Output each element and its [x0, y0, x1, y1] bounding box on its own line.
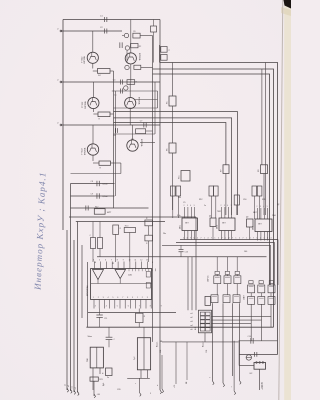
- page right margin strip: [284, 0, 291, 400]
- op-amp comparator A: [93, 270, 104, 280]
- svg-text:3: 3: [187, 205, 188, 207]
- resistor R21: [145, 220, 153, 226]
- resistor R7: [223, 165, 229, 174]
- node terminal G1: [213, 381, 215, 385]
- wire bus u4: [97, 256, 267, 258]
- svg-text:R1: R1: [133, 31, 135, 33]
- wire gate col x237 up: [236, 257, 238, 272]
- wire gate colR x251: [250, 293, 252, 297]
- node stage2 bus terminal: [60, 81, 62, 83]
- svg-text:2: 2: [98, 297, 99, 299]
- capacitor stage1 C3: [119, 42, 121, 48]
- svg-text:Др1: Др1: [103, 383, 105, 386]
- wire stage1 VT1 collector: [92, 31, 94, 52]
- resistor R25: [90, 377, 98, 381]
- wire left rail A: [62, 20, 64, 231]
- svg-text:4: 4: [227, 205, 228, 207]
- svg-text:1: 1: [215, 237, 216, 239]
- svg-text:10: 10: [129, 259, 131, 261]
- resistor stage3 Re: [92, 155, 94, 161]
- capacitor stage1 C1: [104, 17, 106, 22]
- resistor R22: [145, 235, 153, 241]
- wire feeder x265: [265, 63, 267, 216]
- wire bus y312: [88, 312, 176, 314]
- svg-text:0,1мк: 0,1мк: [103, 196, 108, 198]
- wire stage2 VT1 emitter down: [92, 117, 94, 125]
- diode stage1 VD2b: [125, 65, 129, 69]
- wire cap row 1: [71, 183, 115, 185]
- svg-text:1: 1: [93, 297, 94, 299]
- wire X1 bottom: [204, 333, 206, 342]
- wire gate down 4: [239, 303, 241, 380]
- diode VD5: [246, 355, 251, 360]
- resistor R16: [234, 195, 239, 205]
- svg-text:ГТ322: ГТ322: [82, 101, 84, 108]
- svg-text:b1: b1: [71, 386, 73, 388]
- svg-text:e: e: [209, 377, 210, 379]
- svg-text:4: 4: [239, 237, 240, 239]
- diode VD3: [210, 218, 216, 227]
- IC DA1 inner ticks: [128, 269, 130, 272]
- wire y341 link: [162, 341, 239, 343]
- svg-text:ИЕ7: ИЕ7: [258, 224, 262, 226]
- svg-text:3: 3: [147, 297, 148, 299]
- resistor stage1 Re: [92, 63, 94, 68]
- IC DD1 bottom pins: [184, 231, 186, 240]
- wire stage3 VT2 collector: [132, 125, 134, 140]
- svg-text:5: 5: [150, 393, 151, 395]
- wire stage3 top bus: [63, 124, 160, 126]
- svg-text:50мк: 50мк: [88, 336, 92, 338]
- wire right bundle v2: [157, 91, 159, 108]
- wire left rail D: [73, 240, 75, 392]
- svg-text:7: 7: [222, 237, 223, 239]
- wire stage2 line91: [112, 90, 158, 92]
- diode stage1 VD1: [124, 33, 128, 37]
- wire stage2 emitter link: [110, 113, 114, 115]
- svg-text:КР572ПА1: КР572ПА1: [86, 285, 89, 296]
- wire ladder top: [239, 340, 278, 342]
- svg-text:R2: R2: [139, 46, 141, 48]
- svg-text:ГТ322: ГТ322: [81, 56, 83, 63]
- svg-text:С14: С14: [248, 336, 251, 338]
- wire connector feed: [195, 217, 197, 310]
- svg-text:4: 4: [263, 206, 264, 208]
- gate DD6.3: [233, 295, 240, 303]
- svg-text:3: 3: [260, 206, 261, 208]
- IC DD3 bottom pins: [257, 232, 259, 241]
- svg-text:1: 1: [194, 237, 195, 239]
- gate DD4.3: [234, 276, 241, 284]
- wire X1 out3: [212, 324, 252, 341]
- svg-text:7: 7: [201, 237, 202, 239]
- resistor stage3 R6a: [136, 129, 146, 134]
- svg-text:Вых.1: Вых.1: [157, 341, 159, 347]
- wire nest line 1: [114, 112, 238, 216]
- gate DD4.2: [224, 276, 231, 284]
- svg-text:ИЕ7: ИЕ7: [253, 212, 257, 214]
- svg-text:С5: С5: [183, 202, 185, 204]
- wire stage3 VT1 collector: [92, 125, 94, 144]
- node stage1 corner box: [153, 20, 155, 27]
- IC DA1 bottom pins: [93, 300, 95, 309]
- resistor R24: [106, 368, 113, 376]
- svg-text:СБРОС: СБРОС: [208, 275, 210, 282]
- wire X1 feeds: [187, 257, 189, 310]
- resistor R8: [261, 165, 268, 174]
- svg-text:4: 4: [260, 237, 261, 239]
- transistor stage1 VT2: [125, 53, 136, 64]
- transistor stage3 VT1: [87, 144, 98, 155]
- svg-text:С16: С16: [243, 199, 246, 201]
- svg-text:7: 7: [122, 297, 123, 299]
- svg-text:7: 7: [211, 237, 212, 239]
- node stage1 input terminal: [60, 30, 62, 32]
- resistor R12: [214, 186, 219, 196]
- scanner corner shadow: [284, 0, 292, 9]
- wire nest line 2: [114, 118, 232, 215]
- node terminal L5: [94, 394, 96, 398]
- connector X2 plug: [254, 363, 266, 370]
- svg-text:4: 4: [93, 259, 94, 261]
- wire stage3 stub e: [114, 133, 156, 135]
- node terminal x160: [160, 390, 162, 394]
- svg-text:10к: 10к: [178, 197, 181, 199]
- svg-text:5: 5: [117, 306, 118, 308]
- wire rail x152: [152, 36, 154, 342]
- wire stage1 top bus: [63, 19, 160, 21]
- svg-text:9: 9: [161, 306, 162, 308]
- gate DD6.0: [205, 296, 211, 305]
- gate DD6.1: [211, 295, 218, 303]
- wire bottom T link: [127, 377, 150, 379]
- transformer T1: [90, 347, 103, 368]
- svg-text:8: 8: [127, 297, 128, 299]
- svg-text:1: 1: [257, 237, 258, 239]
- svg-text:1: 1: [204, 237, 205, 239]
- svg-text:a1: a1: [64, 384, 66, 386]
- svg-text:20к: 20к: [163, 233, 166, 235]
- svg-text:МП26Б: МП26Б: [84, 147, 86, 155]
- svg-text:R8: R8: [258, 170, 260, 172]
- svg-text:ТМ2: ТМ2: [217, 211, 221, 213]
- wire stage1 VT2 emitter: [130, 64, 132, 82]
- svg-text:7: 7: [264, 237, 265, 239]
- wire bus drops: [277, 240, 279, 286]
- wire ladder sides: [238, 341, 240, 355]
- diode VD4: [247, 219, 254, 227]
- wire stage2 VT2 collector: [129, 82, 131, 97]
- resistor stage1 R1: [133, 33, 140, 38]
- wire stage2 stub c: [114, 107, 158, 109]
- IC DD3 body: [255, 219, 272, 232]
- svg-text:c: c: [135, 383, 136, 385]
- wire bus y221: [76, 221, 165, 223]
- svg-text:8: 8: [150, 306, 151, 308]
- transistor stage3 VT2: [127, 140, 138, 151]
- wire DD7 down 3: [270, 304, 272, 316]
- svg-text:СЧЕТ: СЧЕТ: [244, 294, 246, 300]
- svg-text:4: 4: [218, 237, 219, 239]
- svg-text:6: 6: [128, 306, 129, 308]
- svg-text:5: 5: [267, 206, 268, 208]
- gate DD7.2: [258, 297, 265, 305]
- capacitor С9: [96, 193, 98, 198]
- svg-text:7: 7: [232, 237, 233, 239]
- transistor stage1 VT1: [87, 52, 98, 63]
- svg-text:7: 7: [190, 237, 191, 239]
- svg-text:R31: R31: [262, 199, 265, 201]
- svg-text:м5: м5: [191, 329, 193, 331]
- svg-text:м1: м1: [191, 313, 193, 315]
- svg-text:м3: м3: [191, 321, 193, 323]
- capacitor C9b: [85, 206, 87, 211]
- svg-text:ГТ322: ГТ322: [82, 148, 84, 155]
- connector X1: [199, 310, 212, 333]
- svg-text:5,1к: 5,1к: [177, 215, 181, 217]
- resistor R11: [209, 186, 214, 196]
- wire gate col x227 up: [226, 257, 228, 272]
- IC DD2 bottom pins: [221, 231, 223, 240]
- svg-text:R20: R20: [125, 225, 128, 227]
- wire gate down 1: [212, 303, 214, 381]
- wire bus top-C: [153, 74, 270, 285]
- svg-text:2: 2: [142, 297, 143, 299]
- svg-text:R7: R7: [220, 170, 222, 172]
- svg-text:4: 4: [197, 237, 198, 239]
- capacitor C12: [106, 336, 113, 338]
- svg-text:4: 4: [229, 237, 230, 239]
- resistor R23: [136, 313, 144, 322]
- svg-text:7: 7: [111, 259, 112, 261]
- wire cap row 2: [71, 195, 115, 197]
- IC DD2 top pins: [221, 207, 223, 218]
- wire X1 out1: [212, 316, 272, 327]
- wire gate colR x261: [260, 293, 262, 297]
- svg-text:1к: 1к: [204, 205, 206, 207]
- resistor R18: [98, 238, 103, 249]
- svg-text:МП26Б: МП26Б: [85, 101, 87, 109]
- capacitor C13: [179, 248, 184, 250]
- wire left rail G: [87, 262, 89, 327]
- svg-text:Д2: Д2: [277, 204, 279, 206]
- svg-text:R25: R25: [99, 379, 102, 381]
- wire gate col x237 mid: [236, 284, 238, 295]
- wire mains drop: [259, 369, 261, 390]
- svg-text:5: 5: [99, 259, 100, 261]
- svg-text:5: 5: [112, 297, 113, 299]
- resistor R15: [181, 171, 190, 182]
- svg-text:м4: м4: [191, 325, 193, 327]
- wire stage1 emitter link: [110, 70, 114, 72]
- svg-text:1: 1: [236, 237, 237, 239]
- svg-text:1: 1: [225, 237, 226, 239]
- IC DD2 body: [219, 218, 235, 231]
- wire cap row 3: [71, 207, 149, 209]
- wire left rail C: [70, 184, 72, 392]
- svg-text:МП26Б: МП26Б: [84, 55, 86, 63]
- wire left rail F: [81, 245, 83, 318]
- resistor R14: [257, 186, 262, 196]
- diode stage1 VD2: [125, 46, 129, 50]
- svg-text:12: 12: [140, 259, 142, 261]
- svg-text:1: 1: [137, 297, 138, 299]
- gate DD6.2: [223, 295, 230, 303]
- wire stage3 stub f: [140, 142, 155, 144]
- wire gate colR x271: [270, 293, 272, 297]
- svg-text:4: 4: [190, 205, 191, 207]
- svg-text:С5: С5: [114, 94, 116, 96]
- node terminal T-mid: [140, 393, 142, 397]
- capacitor stage3 C7: [143, 123, 145, 128]
- wire stage2 VT1 collector: [92, 82, 94, 97]
- resistor R10: [176, 186, 181, 196]
- resistor stage2 R5a: [127, 80, 135, 85]
- svg-text:+15: +15: [174, 385, 176, 388]
- svg-text:МП26Б: МП26Б: [140, 139, 142, 147]
- svg-text:8: 8: [117, 259, 118, 261]
- node terminal L2: [71, 389, 73, 393]
- svg-text:1: 1: [246, 237, 247, 239]
- wire stage1 VT2 collector: [130, 20, 132, 53]
- capacitor C11: [96, 314, 102, 316]
- resistor R20: [124, 228, 135, 233]
- wire mid block links: [92, 249, 94, 263]
- resistor R6: [169, 143, 176, 153]
- svg-text:a2: a2: [68, 385, 70, 387]
- page fold line: [279, 0, 283, 400]
- wire stage2 stub b: [135, 99, 158, 101]
- node terminal L3: [74, 390, 76, 394]
- capacitor С8: [96, 181, 98, 186]
- svg-text:м2: м2: [191, 317, 193, 319]
- wire ladder mid: [239, 354, 277, 356]
- svg-text:С13: С13: [185, 252, 188, 254]
- svg-text:МП26Б: МП26Б: [138, 53, 140, 61]
- wire bus u1: [180, 239, 278, 241]
- wire left rail E: [77, 222, 79, 393]
- svg-text:R12: R12: [199, 199, 202, 201]
- wire gate down 2: [222, 303, 224, 383]
- resistor R17: [94, 209, 105, 215]
- svg-text:С20: С20: [117, 389, 120, 391]
- transistor stage2 VT2: [125, 97, 136, 108]
- svg-text:3: 3: [103, 297, 104, 299]
- svg-text:Вых.2: Вых.2: [203, 341, 205, 347]
- IC DD1 top pins: [184, 207, 186, 218]
- wire bottom stub x187: [186, 342, 188, 380]
- svg-text:d: d: [157, 385, 158, 387]
- node terminal out-a: [162, 389, 164, 393]
- resistor stage1 R2: [131, 44, 139, 48]
- transistor stage2 VT1: [88, 97, 99, 108]
- svg-text:4: 4: [208, 237, 209, 239]
- connector P1 cluster: [159, 45, 161, 63]
- svg-text:100: 100: [244, 251, 247, 253]
- svg-text:4: 4: [187, 237, 188, 239]
- svg-text:3: 3: [95, 306, 96, 308]
- diode stage2 VD: [124, 86, 128, 90]
- wire bus u2: [176, 242, 275, 244]
- svg-text:ЛА3: ЛА3: [272, 214, 276, 217]
- wire stage3 line173: [71, 173, 121, 175]
- op-amp comparator B: [115, 270, 126, 279]
- gate DD4.1: [214, 276, 221, 284]
- svg-text:12: 12: [112, 263, 114, 265]
- gate DD5.3: [268, 285, 275, 293]
- capacitor C14: [250, 338, 252, 344]
- svg-text:Д9: Д9: [209, 216, 211, 218]
- gate DD5.2: [258, 285, 265, 293]
- svg-text:7: 7: [139, 306, 140, 308]
- node terminal G3: [240, 381, 242, 385]
- svg-text:C11: C11: [104, 318, 107, 320]
- wire long bus y217: [69, 216, 196, 218]
- resistor R13: [252, 186, 257, 196]
- resistor R5: [169, 96, 176, 106]
- capacitor stage3 C6: [114, 128, 116, 133]
- IC DA1 КР572ПА1 body: [91, 269, 152, 300]
- svg-text:R15: R15: [179, 176, 181, 179]
- svg-text:6: 6: [105, 259, 106, 261]
- node stage3 bus terminal: [60, 124, 62, 126]
- node terminal G2: [223, 383, 225, 387]
- IC DD1 body: [182, 218, 198, 231]
- svg-text:b2: b2: [75, 387, 77, 389]
- svg-text:4: 4: [250, 237, 251, 239]
- node terminal L4: [78, 391, 80, 395]
- wire DD7 down 1: [250, 304, 252, 323]
- capacitor stage2 C4: [119, 80, 121, 85]
- resistor stage2 Re: [92, 109, 94, 112]
- wire stage2 VT2 emitter: [129, 109, 131, 125]
- svg-text:7: 7: [253, 237, 254, 239]
- svg-text:МП26Б: МП26Б: [137, 97, 139, 105]
- svg-text:ИЕ7: ИЕ7: [185, 223, 189, 225]
- IC DA1 top pins: [94, 262, 96, 269]
- wire gate col x227 mid: [226, 284, 228, 295]
- svg-text:R17: R17: [95, 207, 98, 209]
- gate DD7.3: [268, 297, 275, 305]
- node terminal x234: [234, 391, 236, 395]
- svg-text:R6: R6: [167, 149, 169, 151]
- gate DD5.1: [248, 285, 255, 293]
- wire gate down 3: [232, 303, 234, 376]
- svg-text:0,1мк: 0,1мк: [103, 184, 108, 186]
- resistor R19: [113, 225, 119, 234]
- svg-text:4: 4: [108, 297, 109, 299]
- wire nest line 3: [114, 123, 226, 165]
- wire X1 out2: [212, 320, 262, 341]
- wire bus u3: [162, 244, 271, 246]
- wire rail x160: [159, 63, 161, 391]
- wire ladder low: [238, 355, 240, 366]
- wire stage1 second bus: [61, 30, 122, 32]
- svg-text:8: 8: [152, 262, 153, 264]
- transformer T2: [137, 338, 150, 370]
- wire DD7 down 2: [260, 304, 262, 320]
- svg-text:2: 2: [184, 205, 185, 207]
- svg-text:Ш2: Ш2: [250, 373, 253, 375]
- wire mid vertical A: [113, 71, 115, 208]
- svg-text:Д9: Д9: [246, 217, 248, 219]
- svg-text:6: 6: [117, 297, 118, 299]
- svg-text:~220 В: ~220 В: [261, 382, 264, 390]
- svg-text:11: 11: [135, 259, 137, 261]
- wire bus y327: [86, 326, 273, 328]
- svg-text:1: 1: [183, 237, 184, 239]
- wire bus top-B: [153, 69, 274, 327]
